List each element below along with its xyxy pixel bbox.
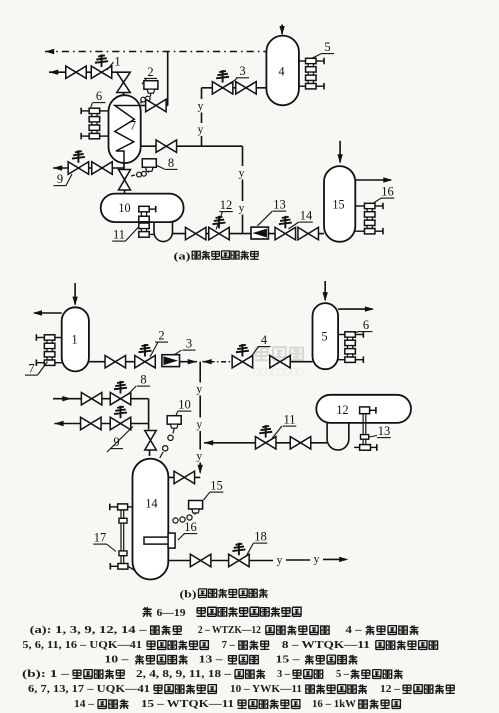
- wire: line from receiver 12 drain into drop leg: [204, 442, 210, 444]
- stop valve on collector drain: [190, 554, 211, 567]
- temperature controller 15 (WTQK-11): [189, 501, 203, 510]
- level gauge 17 (UQK-41) on collector 14: [110, 504, 135, 571]
- solenoid valve 9: [68, 162, 89, 175]
- wire: drain from pocket of receiver 12: [245, 442, 327, 444]
- svg-text:y: y: [314, 554, 320, 566]
- svg-text:5: 5: [321, 330, 327, 344]
- svg-text:1: 1: [71, 333, 77, 347]
- svg-text:1: 1: [114, 55, 120, 69]
- level controller 6 (b) on separator 5: [345, 332, 356, 337]
- svg-text:14 –: 14 –: [74, 699, 95, 710]
- solenoid valve 14: [275, 227, 296, 240]
- wire: inlet arrow into separator 4: [281, 25, 283, 35]
- svg-text:6—19: 6—19: [157, 607, 187, 619]
- wire: y-marked drop leg from junction (b): [199, 362, 201, 383]
- svg-text:(b): 1 –: (b): 1 –: [22, 669, 70, 680]
- svg-text:2 – WTZK—12: 2 – WTZK—12: [198, 625, 261, 636]
- svg-text:18: 18: [254, 530, 267, 544]
- svg-text:3: 3: [186, 337, 192, 351]
- svg-text:14: 14: [300, 209, 313, 223]
- solenoid valve 3 with stop valve to separator 4: [202, 87, 267, 89]
- stop valve before intercooler 15: [298, 227, 319, 240]
- wire: inlet arrow into separator 5 (b): [324, 281, 326, 300]
- svg-text:3: 3: [239, 64, 245, 78]
- svg-text:5, 6, 11, 16 – UQK—41: 5, 6, 11, 16 – UQK—41: [22, 640, 142, 651]
- wire: hot gas inlet line 8 (b): [53, 398, 149, 400]
- svg-text:7 –: 7 –: [222, 640, 236, 651]
- svg-text:5: 5: [324, 40, 330, 54]
- stop valve on collector 14 upper-right inlet: [168, 476, 200, 478]
- electric heater 16 (1kW): [144, 537, 169, 544]
- svg-text:4 –: 4 –: [346, 625, 363, 636]
- svg-text:2: 2: [158, 329, 164, 343]
- valve (vertical) above oil collector 7: [117, 72, 131, 92]
- svg-text:y: y: [277, 555, 283, 567]
- check valve 13 (止回阀): [251, 227, 268, 239]
- intercooler 1 (中间冷却器): [62, 307, 89, 371]
- temperature controller 8 (WTQK-11): [142, 159, 156, 168]
- oil pocket under receiver 10: [153, 222, 155, 232]
- wire: oil drain from collector 14 bottom: [168, 560, 273, 562]
- stop valve on line 8: [81, 392, 102, 405]
- solenoid valve 9 (b): [110, 417, 131, 430]
- oil pocket under receiver 12: [326, 423, 328, 439]
- svg-text:15 –: 15 –: [276, 655, 301, 666]
- svg-text:16 – 1kW: 16 – 1kW: [312, 699, 357, 710]
- solenoid valve 4 (b): [232, 355, 253, 368]
- wire: oil drain main line (b): [89, 361, 153, 363]
- svg-text:(a): 1, 3, 9, 12, 14 –: (a): 1, 3, 9, 12, 14 –: [30, 625, 148, 636]
- level gauge 13 (b) on receiver 12: [354, 407, 377, 451]
- stop valve on receiver 12 drain: [290, 437, 311, 450]
- svg-text:16: 16: [184, 520, 197, 534]
- wire: suction line out of intercooler 1: [34, 312, 61, 314]
- svg-text:y: y: [196, 384, 202, 396]
- svg-text:2: 2: [147, 65, 153, 79]
- svg-text:15 – WTQK—11: 15 – WTQK—11: [141, 699, 234, 710]
- svg-text:6, 7, 13, 17 – UQK—41: 6, 7, 13, 17 – UQK—41: [28, 684, 150, 695]
- stop valve (a, on line 1 left): [66, 66, 87, 79]
- svg-text:11: 11: [113, 228, 125, 242]
- svg-text:4: 4: [261, 333, 268, 347]
- stop valve after intercooler 1: [105, 355, 126, 368]
- wire: oil line from coil bottom with left branch: [123, 163, 125, 169]
- level controller 11 on receiver 10: [139, 206, 156, 237]
- svg-text:14: 14: [145, 497, 157, 511]
- wire: riser from valve to dash-dot header: [167, 52, 169, 106]
- oil collector 7 (集油器): [109, 95, 141, 163]
- svg-text:13 –: 13 –: [199, 655, 224, 666]
- watermark: [254, 347, 303, 375]
- svg-text:y: y: [239, 203, 245, 215]
- svg-text:(b): (b): [180, 589, 197, 601]
- valve (vertical) above receiver 10, controlled by 8: [119, 170, 131, 191]
- solenoid valve 12: [209, 227, 230, 240]
- solenoid valve 2 (b): [135, 355, 156, 368]
- level controller 5 (UQK-41) on separator 4: [306, 58, 317, 63]
- valve (vertical) above collector 14: [145, 431, 157, 451]
- intercooler 15 (中间冷却器): [324, 166, 355, 242]
- svg-text:y: y: [239, 168, 245, 180]
- solenoid valve 18: [229, 554, 250, 567]
- svg-text:9: 9: [57, 172, 63, 186]
- oil-ammonia separator 5 (b): [313, 303, 339, 369]
- stop valve on line 9: [81, 417, 102, 430]
- temperature controller 2 (WTZK-12): [144, 81, 158, 90]
- valve on vessel 7 top-right to header: [141, 105, 146, 107]
- level controller 6 (UQK-41) on vessel 7: [89, 108, 100, 113]
- wire: outlet line of separator 5: [338, 308, 373, 310]
- pressure controller 10 (YWK-11): [167, 416, 181, 425]
- wire: drop leg to oil drain line (y marks): [242, 146, 244, 166]
- wire: inlet arrow into intercooler 15: [339, 141, 341, 163]
- stop valve on vessel 7 mid-right drain: [141, 145, 243, 147]
- svg-text:6: 6: [96, 89, 102, 103]
- wire: liquid return line to vessel 7 top valve: [49, 71, 131, 73]
- level controller 7 (UQK-41) on intercooler 1: [44, 335, 55, 340]
- svg-text:13: 13: [273, 198, 286, 212]
- svg-text:8: 8: [168, 156, 174, 170]
- svg-text:12: 12: [220, 198, 233, 212]
- solenoid valve 1: [91, 66, 112, 79]
- wire: return line 9 (b): [54, 423, 148, 425]
- wire: oil drain line (a): [173, 233, 275, 235]
- stop valve right of solenoid 9: [92, 162, 113, 175]
- stop valve before separator 5 (b): [270, 355, 291, 368]
- oil collector 14 (集油器): [133, 459, 169, 580]
- svg-text:5 –: 5 –: [336, 669, 350, 680]
- level controller 16 (UQK-41) on intercooler 15: [364, 203, 375, 208]
- svg-text:4: 4: [278, 65, 284, 79]
- svg-text:15: 15: [210, 479, 223, 493]
- svg-text:y: y: [196, 419, 202, 431]
- solenoid valve 8 (b): [110, 392, 131, 405]
- wire: drop into oil collector 14: [148, 399, 150, 430]
- svg-text:3 –: 3 –: [277, 669, 291, 680]
- high pressure liquid receiver 10 (高压贮液桶): [101, 194, 184, 223]
- svg-text:15: 15: [332, 198, 344, 212]
- svg-text:10: 10: [118, 201, 130, 215]
- oil-ammonia separator 4 (油氨分离器): [266, 36, 299, 106]
- svg-text:12: 12: [336, 403, 348, 417]
- svg-text:12 –: 12 –: [380, 684, 401, 695]
- svg-text:17: 17: [94, 531, 107, 545]
- svg-text:y: y: [198, 101, 204, 113]
- svg-text:7: 7: [28, 362, 34, 376]
- svg-text:(a): (a): [174, 250, 191, 262]
- svg-text:10: 10: [178, 398, 191, 412]
- stop valve on drain line: [185, 227, 206, 240]
- svg-text:y: y: [196, 451, 202, 463]
- solenoid valve 11 (b): [255, 437, 276, 450]
- wire: drop leg from valve 3 line (y marks): [201, 88, 203, 99]
- check valve 3 (b): [162, 355, 180, 367]
- svg-text:6: 6: [363, 318, 369, 332]
- heating coil inside vessel 7: [115, 106, 141, 164]
- wire: junction with flow arrows: [180, 361, 197, 363]
- figure title 图6-19 高中压容器放油系统图: [143, 607, 152, 617]
- svg-text:8 – WTQK—11: 8 – WTQK—11: [282, 640, 370, 651]
- svg-text:2, 4, 8, 9, 11, 18 –: 2, 4, 8, 9, 11, 18 –: [136, 669, 232, 680]
- svg-text:8: 8: [140, 373, 146, 387]
- svg-text:y: y: [198, 124, 204, 136]
- wire: inlet arrow into intercooler 1 (b): [74, 283, 76, 305]
- svg-text:13: 13: [378, 424, 391, 438]
- svg-text:10 –: 10 –: [104, 655, 129, 666]
- wire: hot-gas dash-dot header line (a): [45, 51, 267, 53]
- svg-text:10 – YWK—11: 10 – YWK—11: [230, 684, 302, 695]
- high pressure receiver 12 (b): [316, 395, 411, 423]
- svg-text:16: 16: [381, 185, 394, 199]
- wire: suction line out of intercooler 15: [355, 179, 391, 181]
- svg-text:11: 11: [283, 413, 295, 427]
